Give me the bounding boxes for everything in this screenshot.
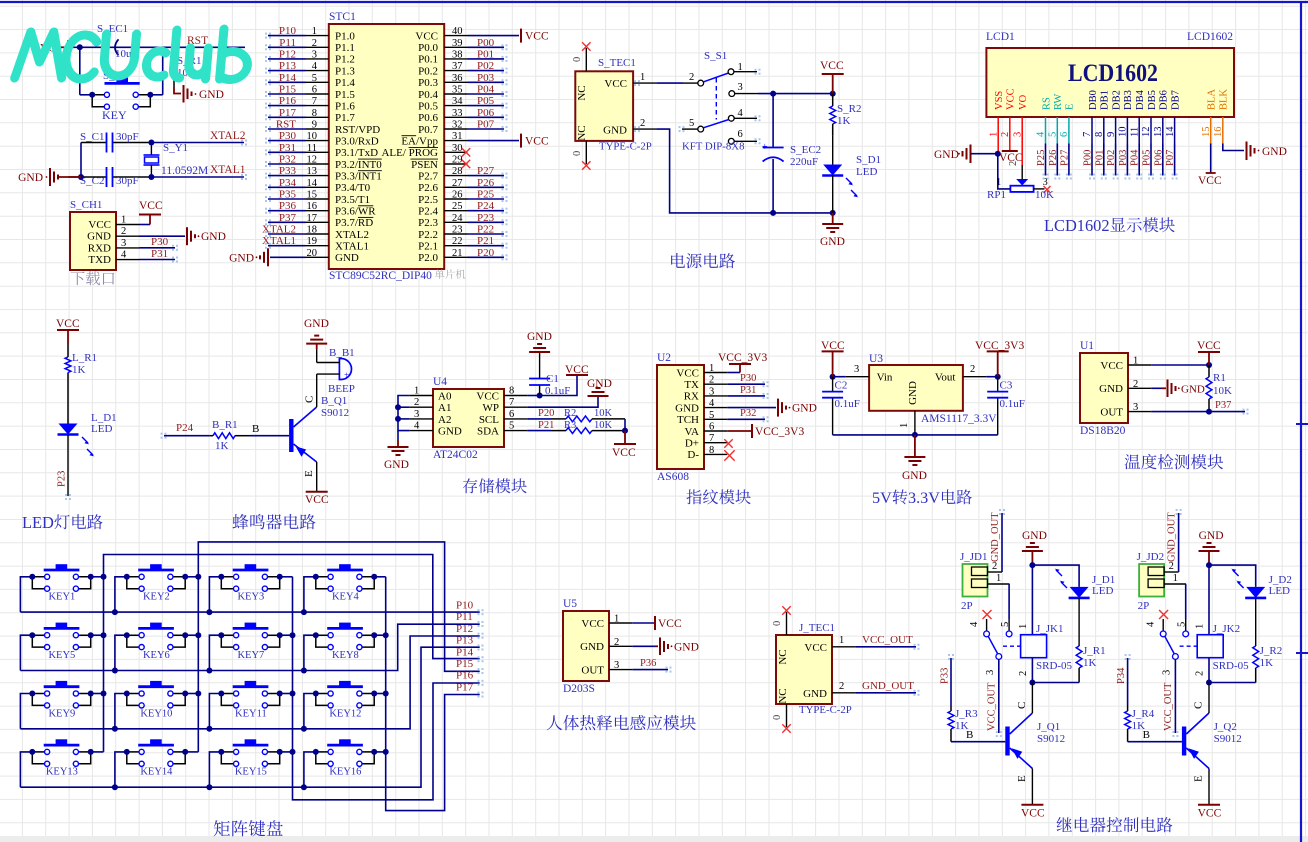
svg-text:J_TEC1: J_TEC1 xyxy=(799,622,835,634)
U2 pin 8 D- xyxy=(704,453,727,455)
svg-text:U5: U5 xyxy=(563,598,577,610)
svg-text:P24: P24 xyxy=(176,422,194,434)
svg-text:GND: GND xyxy=(438,426,462,438)
svg-text:P3.7/RD: P3.7/RD xyxy=(335,217,373,229)
STC1 pin 30 ALE/ PROG xyxy=(444,151,467,153)
svg-text:7: 7 xyxy=(312,96,317,107)
svg-text:15: 15 xyxy=(307,190,318,201)
U2 pin6 VA to VCC_3V3 xyxy=(727,430,752,432)
wire XTAL1 xyxy=(151,176,244,178)
svg-text:OUT: OUT xyxy=(1100,406,1123,418)
keypad column bus 1 / net P14 xyxy=(104,555,480,752)
power flag VCC (S_CH1) xyxy=(140,224,151,226)
svg-text:GND: GND xyxy=(1199,530,1224,542)
svg-text:GND_OUT: GND_OUT xyxy=(990,512,1001,562)
LCD pin16 to GND xyxy=(1222,117,1224,144)
svg-text:P2.0: P2.0 xyxy=(418,252,438,264)
svg-text:4: 4 xyxy=(709,398,715,409)
svg-text:GND: GND xyxy=(1181,383,1205,395)
svg-text:SRD-05: SRD-05 xyxy=(1036,660,1073,672)
svg-text:17: 17 xyxy=(307,213,318,224)
push button KEY5 xyxy=(44,627,80,630)
svg-text:B: B xyxy=(252,423,259,435)
svg-text:VCC_3V3: VCC_3V3 xyxy=(755,426,804,438)
ground (reset) xyxy=(174,87,181,94)
svg-text:29: 29 xyxy=(452,155,463,166)
resistor J_R2 1K xyxy=(1255,598,1257,645)
svg-text:5: 5 xyxy=(509,421,514,432)
svg-text:J_JD1: J_JD1 xyxy=(960,551,988,563)
svg-text:GND: GND xyxy=(1099,383,1123,395)
svg-text:P23: P23 xyxy=(57,471,68,487)
svg-text:Vout: Vout xyxy=(935,372,956,384)
svg-text:P15: P15 xyxy=(279,84,297,96)
svg-text:2: 2 xyxy=(1008,161,1019,166)
svg-text:J_R2: J_R2 xyxy=(1260,645,1283,657)
svg-text:VCC: VCC xyxy=(415,30,438,42)
svg-text:KEY13: KEY13 xyxy=(46,767,78,778)
svg-text:P0.7: P0.7 xyxy=(418,124,438,136)
svg-text:P07: P07 xyxy=(477,119,495,131)
svg-text:VCC: VCC xyxy=(581,618,604,630)
U1 pin 2 GND xyxy=(1128,387,1151,389)
svg-text:P00: P00 xyxy=(1083,150,1094,166)
svg-text:S_EC2: S_EC2 xyxy=(790,144,821,156)
no connect U2 pin7 xyxy=(724,439,732,447)
STC1 pin 34 P0.5 xyxy=(444,105,467,107)
relay J_JK1 pin2 wire xyxy=(1031,658,1033,683)
svg-text:GND: GND xyxy=(675,402,699,414)
svg-text:LED: LED xyxy=(1092,585,1113,597)
S_S1 pin 3 xyxy=(729,91,735,97)
svg-text:S_R2: S_R2 xyxy=(837,103,861,115)
STC1 pin 33 P0.6 xyxy=(444,116,467,118)
emitter wire (J_Q1) xyxy=(1031,769,1033,805)
net label P24 wire xyxy=(164,435,209,437)
STC1 pin 39 P0.0 xyxy=(444,46,467,48)
keypad row 2 feeds xyxy=(20,635,32,670)
svg-text:GND: GND xyxy=(1022,530,1047,542)
ground (buzzer) xyxy=(306,343,327,345)
svg-text:KEY12: KEY12 xyxy=(329,708,361,719)
svg-text:VCC_3V3: VCC_3V3 xyxy=(975,340,1024,352)
svg-text:J_JK2: J_JK2 xyxy=(1213,623,1241,635)
svg-text:DB7: DB7 xyxy=(1170,90,1181,110)
svg-text:VCC: VCC xyxy=(820,60,844,72)
title temperature module xyxy=(1125,454,1224,469)
svg-text:1: 1 xyxy=(614,614,619,625)
svg-text:VSS: VSS xyxy=(994,91,1005,110)
svg-text:23: 23 xyxy=(452,225,463,236)
svg-text:S9012: S9012 xyxy=(1214,733,1242,745)
svg-text:VCC: VCC xyxy=(88,219,111,231)
U4 pin 5 SDA xyxy=(504,430,527,432)
J_TEC1 pin2 / net GND_OUT xyxy=(832,692,855,694)
svg-text:20: 20 xyxy=(307,248,318,259)
svg-text:GND: GND xyxy=(934,149,959,161)
STC1 pin 7 P1.6 xyxy=(306,105,329,107)
STC1 pin 18 XTAL2 xyxy=(306,233,329,235)
STC1 pin 40 VCC xyxy=(444,35,467,37)
svg-text:S_TEC1: S_TEC1 xyxy=(598,57,636,69)
svg-text:GND: GND xyxy=(201,231,226,243)
capacitor C3 0.1uF xyxy=(997,377,999,392)
STC1 pin 2 P1.1 xyxy=(306,46,329,48)
svg-text:SDA: SDA xyxy=(477,426,499,438)
svg-text:10: 10 xyxy=(307,131,318,142)
svg-text:37: 37 xyxy=(452,61,463,72)
svg-text:2: 2 xyxy=(640,118,645,129)
svg-text:KEY6: KEY6 xyxy=(143,650,170,661)
no connect pin 30 xyxy=(462,148,470,156)
svg-text:R1: R1 xyxy=(1213,372,1226,384)
title power circuit xyxy=(671,253,735,268)
svg-text:P16: P16 xyxy=(456,670,474,682)
svg-text:1K: 1K xyxy=(1260,657,1274,669)
svg-text:3: 3 xyxy=(985,670,996,675)
U2 pin 2 TX xyxy=(704,383,727,385)
svg-text:1: 1 xyxy=(640,72,645,83)
svg-text:2P: 2P xyxy=(961,600,973,612)
net label P31 wire xyxy=(140,259,176,261)
svg-text:P37: P37 xyxy=(1215,400,1231,411)
svg-text:TXD: TXD xyxy=(88,254,111,266)
push button KEY7 xyxy=(233,627,269,630)
svg-text:VCC: VCC xyxy=(804,642,827,654)
title LCD module xyxy=(1044,216,1175,235)
STC1 pin 4 P1.3 xyxy=(306,70,329,72)
svg-text:DB3: DB3 xyxy=(1123,90,1134,110)
relay switch contacts (J_JK2) xyxy=(1159,610,1168,619)
power flag VCC (U5) xyxy=(632,622,655,624)
push button KEY11 xyxy=(233,685,269,688)
svg-text:BEEP: BEEP xyxy=(328,383,355,395)
svg-text:KEY2: KEY2 xyxy=(143,592,170,603)
svg-text:1: 1 xyxy=(839,635,844,646)
svg-text:U3: U3 xyxy=(869,353,883,365)
svg-text:AT24C02: AT24C02 xyxy=(433,449,478,461)
svg-text:TYPE-C-2P: TYPE-C-2P xyxy=(599,141,652,153)
svg-text:NC: NC xyxy=(777,688,789,703)
svg-text:P20: P20 xyxy=(538,408,554,419)
svg-text:C1: C1 xyxy=(546,373,559,385)
svg-text:XTAL2: XTAL2 xyxy=(262,224,296,236)
svg-text:P1.1: P1.1 xyxy=(335,42,355,54)
svg-text:4: 4 xyxy=(312,61,318,72)
svg-text:S9012: S9012 xyxy=(321,407,349,419)
svg-text:1: 1 xyxy=(709,363,714,374)
svg-text:2: 2 xyxy=(1133,379,1138,390)
STC1 pin 15 P3.5/T1 xyxy=(306,198,329,200)
svg-text:P21: P21 xyxy=(477,235,494,247)
svg-text:P02: P02 xyxy=(1106,150,1117,166)
svg-text:4: 4 xyxy=(414,421,420,432)
svg-text:C2: C2 xyxy=(835,380,848,392)
ground (power circuit) xyxy=(832,213,834,224)
svg-text:BLA: BLA xyxy=(1207,89,1218,110)
svg-text:LCD1602: LCD1602 xyxy=(1044,216,1110,235)
svg-text:KEY11: KEY11 xyxy=(235,708,267,719)
svg-text:J_Q1: J_Q1 xyxy=(1037,721,1060,733)
no connect U2 pin8 xyxy=(724,450,734,460)
STC1 pin 31 EA/Vpp xyxy=(444,140,467,142)
svg-text:RP1: RP1 xyxy=(987,189,1006,201)
svg-text:E: E xyxy=(1065,104,1076,110)
svg-text:10K: 10K xyxy=(594,420,613,431)
svg-text:GND: GND xyxy=(87,231,111,243)
relay top node wire xyxy=(1032,565,1079,587)
svg-text:XTAL1: XTAL1 xyxy=(335,241,369,253)
svg-text:KEY8: KEY8 xyxy=(332,650,359,661)
STC1 pin 16 P3.6/WR xyxy=(306,210,329,212)
push button KEY6 xyxy=(138,627,174,630)
push button KEY16 xyxy=(327,744,363,747)
STC1 pin 5 P1.4 xyxy=(306,81,329,83)
svg-text:S_C1: S_C1 xyxy=(80,131,104,143)
resistor L_R1 1K xyxy=(67,343,69,357)
svg-text:9: 9 xyxy=(312,120,317,131)
resistor J_R1 1K xyxy=(1078,598,1080,645)
svg-text:DB2: DB2 xyxy=(1111,90,1122,110)
U2 pin 5 TCH xyxy=(704,418,727,420)
svg-text:RX: RX xyxy=(684,391,699,403)
STC1 pin 20 GND xyxy=(306,256,329,258)
svg-text:P36: P36 xyxy=(640,658,656,669)
svg-text:28: 28 xyxy=(452,166,463,177)
STC1 pin 32 P0.7 xyxy=(444,128,467,130)
svg-text:8: 8 xyxy=(509,386,514,397)
svg-text:VCC_OUT: VCC_OUT xyxy=(1163,682,1174,731)
svg-text:B_Q1: B_Q1 xyxy=(321,395,347,407)
STC1 pin 28 P2.7 xyxy=(444,175,467,177)
svg-text:A0: A0 xyxy=(438,391,452,403)
svg-text:P03: P03 xyxy=(477,72,495,84)
STC1 pin 17 P3.7/RD xyxy=(306,221,329,223)
LCD pin2 to VCC xyxy=(1009,117,1011,151)
svg-text:P2.6: P2.6 xyxy=(418,182,438,194)
svg-text:KEY16: KEY16 xyxy=(329,767,361,778)
power flag VCC (reset) xyxy=(67,40,69,54)
svg-text:P26: P26 xyxy=(1048,150,1059,166)
LED L_D1 xyxy=(59,424,78,435)
base wire (J_Q2) xyxy=(1128,741,1182,743)
wire XTAL2 xyxy=(151,142,244,144)
STC1 pin 26 P2.5 xyxy=(444,198,467,200)
net VCC_OUT stub (relay 1) xyxy=(998,659,1000,733)
svg-text:P03: P03 xyxy=(1118,150,1129,166)
svg-text:KEY7: KEY7 xyxy=(237,650,264,661)
relay switch contacts (J_JK1) xyxy=(983,610,992,619)
svg-text:P1.2: P1.2 xyxy=(335,54,355,66)
svg-text:2: 2 xyxy=(839,681,844,692)
svg-text:P13: P13 xyxy=(456,635,474,647)
svg-text:VCC: VCC xyxy=(139,200,163,212)
svg-text:KEY14: KEY14 xyxy=(140,767,173,778)
net GND_OUT stub (J_JD2) xyxy=(1178,513,1180,572)
push button KEY15 xyxy=(233,744,269,747)
wire pin3 to VCC node xyxy=(758,93,833,95)
svg-text:39: 39 xyxy=(452,38,463,49)
svg-text:GND: GND xyxy=(902,470,927,482)
STC1 pin 19 XTAL1 xyxy=(306,245,329,247)
svg-text:GND: GND xyxy=(580,641,604,653)
U4 pin 2 A1 xyxy=(410,406,433,408)
wire base B xyxy=(250,435,289,437)
svg-text:C: C xyxy=(1193,702,1205,709)
svg-text:S_CH1: S_CH1 xyxy=(70,199,102,211)
svg-text:GND: GND xyxy=(304,318,329,330)
svg-text:32: 32 xyxy=(452,120,463,131)
svg-text:5V: 5V xyxy=(872,489,892,507)
svg-text:4: 4 xyxy=(969,621,980,627)
svg-text:3: 3 xyxy=(312,49,317,60)
svg-text:P0.0: P0.0 xyxy=(418,42,438,54)
svg-text:KEY: KEY xyxy=(102,108,127,122)
net GND_OUT stub (J_JD1) xyxy=(1001,513,1003,572)
LED S_D1 xyxy=(823,165,842,176)
svg-text:1: 1 xyxy=(1133,356,1138,367)
svg-text:S_EC1: S_EC1 xyxy=(97,23,128,35)
svg-text:GND: GND xyxy=(199,89,224,101)
svg-text:1: 1 xyxy=(1195,624,1206,629)
power flag VCC (relay 1) xyxy=(1021,804,1043,806)
push button KEY14 xyxy=(138,744,174,747)
U4 pin 3 A2 xyxy=(410,418,433,420)
U4 pin6 SCL / resistor R2 10K xyxy=(527,418,551,420)
svg-text:18: 18 xyxy=(307,225,318,236)
svg-text:P15: P15 xyxy=(456,658,474,670)
U3 pin3 Vin wire xyxy=(846,376,869,378)
svg-text:3: 3 xyxy=(854,364,859,375)
STC1 pin 35 P0.4 xyxy=(444,93,467,95)
svg-text:0: 0 xyxy=(572,151,583,156)
svg-text:GND_OUT: GND_OUT xyxy=(1167,512,1178,562)
STC1 pin 6 P1.5 xyxy=(306,93,329,95)
resistor B_R1 1K xyxy=(209,435,213,437)
svg-text:GND: GND xyxy=(803,688,827,700)
svg-text:1K: 1K xyxy=(1083,657,1097,669)
svg-text:VCC: VCC xyxy=(305,494,329,506)
svg-text:P34: P34 xyxy=(279,177,297,189)
STC1 pin 29 PSEN xyxy=(444,163,467,165)
svg-text:LCD1602: LCD1602 xyxy=(1068,60,1158,87)
svg-text:10K: 10K xyxy=(1213,385,1232,397)
U1 pin 1 VCC xyxy=(1128,364,1151,366)
LCD pin1 to GND xyxy=(997,117,999,154)
svg-text:P30: P30 xyxy=(740,373,756,384)
svg-text:2: 2 xyxy=(312,38,317,49)
svg-text:P11: P11 xyxy=(456,611,473,623)
svg-text:E: E xyxy=(303,470,315,477)
svg-text:AS608: AS608 xyxy=(657,471,689,483)
svg-text:4: 4 xyxy=(121,250,127,261)
svg-text:P2.7: P2.7 xyxy=(418,170,438,182)
svg-text:19: 19 xyxy=(307,236,318,247)
J_JD1 pin 1 wire xyxy=(988,583,1010,585)
U2 pin4 GND wire xyxy=(727,407,776,409)
svg-text:1: 1 xyxy=(996,177,1001,188)
svg-text:LCD1: LCD1 xyxy=(986,31,1015,43)
svg-text:S_S1: S_S1 xyxy=(704,50,727,62)
svg-text:P12: P12 xyxy=(279,48,296,60)
collector wire (J_Q1) xyxy=(1031,683,1033,714)
collector wire xyxy=(316,374,318,407)
keypad column bus 2 / net P15 xyxy=(198,542,479,752)
svg-text:1: 1 xyxy=(1018,624,1029,629)
no connect S_TEC1 bottom xyxy=(585,141,587,164)
svg-text:C3: C3 xyxy=(1000,380,1013,392)
svg-text:VCC_OUT: VCC_OUT xyxy=(862,634,913,646)
svg-text:1K: 1K xyxy=(72,364,86,376)
svg-text:P1.4: P1.4 xyxy=(335,77,355,89)
svg-text:VCC: VCC xyxy=(1100,360,1123,372)
wire crystal left xyxy=(80,143,82,178)
svg-text:P06: P06 xyxy=(1153,150,1164,166)
svg-text:P17: P17 xyxy=(279,107,297,119)
power VCC_3V3 (U3 out) xyxy=(997,351,999,376)
svg-text:P33: P33 xyxy=(279,165,297,177)
svg-text:LCD1602: LCD1602 xyxy=(1187,31,1233,43)
push button KEY3 xyxy=(233,569,269,572)
svg-text:GND: GND xyxy=(527,331,552,343)
relay J_JK1 SRD-05 coil xyxy=(1031,565,1033,635)
svg-text:P0.2: P0.2 xyxy=(418,65,438,77)
svg-text:13: 13 xyxy=(307,166,318,177)
svg-text:3: 3 xyxy=(1133,402,1138,413)
svg-text:P3.6/WR: P3.6/WR xyxy=(335,206,376,218)
J_JD2 pin 2 wire xyxy=(1164,571,1179,573)
svg-text:J_R1: J_R1 xyxy=(1083,645,1106,657)
no-ERC markers xyxy=(265,33,271,39)
svg-text:SCL: SCL xyxy=(479,414,499,426)
svg-text:BLK: BLK xyxy=(1219,89,1230,110)
svg-text:14: 14 xyxy=(307,178,318,189)
U5 pin 2 GND xyxy=(609,645,632,647)
svg-text:KFT DIP-8X8: KFT DIP-8X8 xyxy=(682,141,745,153)
svg-text:2: 2 xyxy=(709,375,714,386)
svg-text:B_B1: B_B1 xyxy=(329,347,355,359)
svg-text:10K: 10K xyxy=(1035,189,1054,201)
svg-text:S_Y1: S_Y1 xyxy=(163,142,188,154)
svg-text:R2: R2 xyxy=(564,408,576,419)
push button KEY9 xyxy=(44,685,80,688)
resistor R1 10K xyxy=(1208,365,1210,377)
svg-text:RW: RW xyxy=(1053,94,1064,110)
svg-text:5: 5 xyxy=(709,410,714,421)
label download port xyxy=(71,271,115,285)
svg-text:220uF: 220uF xyxy=(790,156,818,168)
svg-text:VCC: VCC xyxy=(565,364,589,376)
push button KEY2 xyxy=(138,569,174,572)
svg-text:RST/VPD: RST/VPD xyxy=(335,124,380,136)
svg-text:GND: GND xyxy=(603,125,627,137)
collector wire (J_Q2) xyxy=(1208,683,1210,714)
svg-text:GND: GND xyxy=(587,378,612,390)
svg-text:VA: VA xyxy=(685,426,700,438)
svg-text:P34: P34 xyxy=(1116,667,1127,684)
keypad column bus 3 / net P16 xyxy=(293,577,480,800)
svg-text:R3: R3 xyxy=(564,420,576,431)
svg-text:DS18B20: DS18B20 xyxy=(1080,425,1126,437)
svg-text:2: 2 xyxy=(1195,671,1206,676)
svg-text:P36: P36 xyxy=(279,200,297,212)
svg-text:VCC: VCC xyxy=(1197,340,1221,352)
relay bottom node wire xyxy=(1209,682,1256,684)
svg-text:30pF: 30pF xyxy=(116,175,139,187)
svg-text:1: 1 xyxy=(312,26,317,37)
svg-text:P01: P01 xyxy=(1094,150,1105,166)
STC1 pin 37 P0.2 xyxy=(444,70,467,72)
